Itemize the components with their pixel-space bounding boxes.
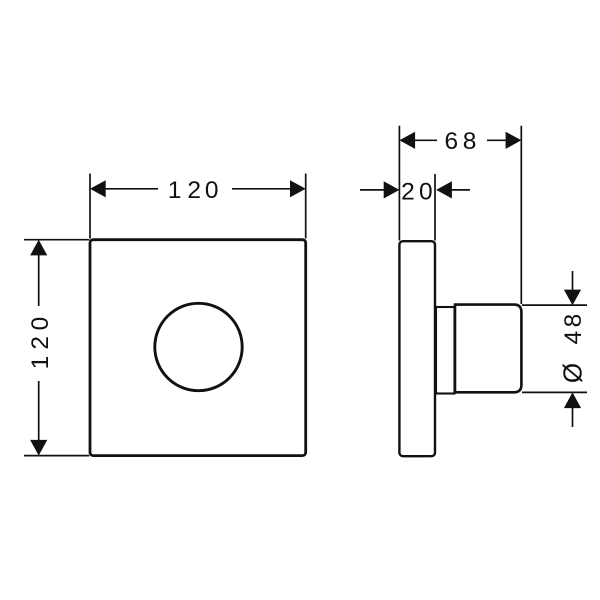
dimension line 68 right segment (487, 139, 507, 141)
arrow right of 68 dimension (506, 132, 522, 149)
svg-text:0: 0 (419, 179, 433, 206)
arrow left of 68 dimension (399, 132, 415, 149)
svg-text:8: 8 (463, 128, 477, 155)
svg-text:0: 0 (27, 317, 54, 331)
dimension line 120 vertical lower segment (38, 381, 40, 440)
svg-text:2: 2 (187, 177, 201, 204)
svg-text:1: 1 (27, 356, 54, 370)
dimension 48 bottom tail line (572, 407, 574, 427)
extension tick top of left 120 dimension (24, 239, 89, 241)
extension line right of 68 dimension (520, 126, 522, 304)
knob neck side view (436, 307, 455, 394)
knob body side view (455, 305, 521, 393)
svg-text:6: 6 (444, 128, 458, 155)
svg-text:8: 8 (560, 314, 587, 328)
arrow bottom of diameter 48 pointing up (564, 392, 581, 408)
extension line left of 68 dimension (398, 126, 400, 241)
extension line right of 20 dimension (434, 174, 436, 241)
dimension 48 top tail line (572, 271, 574, 291)
dimension 20 left tail line (360, 189, 385, 191)
extension tick bottom of left 120 dimension (24, 455, 89, 457)
label 120 vertical (27, 317, 54, 370)
arrow bottom of 120 vertical (30, 440, 47, 456)
label 20 (401, 179, 433, 206)
label 120 horizontal (168, 177, 219, 204)
dimension 20 right tail line (451, 189, 470, 191)
arrow right of 120 horizontal (290, 180, 306, 197)
arrow top of 120 vertical (30, 240, 47, 256)
knob circle front view (155, 303, 242, 390)
label 68 (444, 128, 476, 155)
extension line right of top 120 dimension (305, 174, 307, 239)
svg-text:1: 1 (168, 177, 182, 204)
label diameter 48 (558, 314, 588, 383)
svg-text:2: 2 (401, 179, 415, 206)
extension line bottom of diameter 48 dimension (522, 391, 587, 393)
svg-text:0: 0 (205, 177, 219, 204)
arrow right of 20 dimension pointing left (436, 181, 452, 198)
extension line left of top 120 dimension (89, 174, 91, 239)
arrow top of diameter 48 pointing down (564, 290, 581, 306)
svg-text:2: 2 (27, 336, 54, 350)
svg-text:Ø: Ø (558, 363, 588, 383)
dimension line 120 vertical upper segment (38, 254, 40, 306)
extension line top of diameter 48 dimension (522, 304, 587, 306)
side plate outline (399, 241, 435, 456)
dimension line 120 horizontal left segment (104, 188, 158, 190)
arrow left of 20 dimension pointing right (384, 181, 400, 198)
dimension line 68 left segment (413, 139, 437, 141)
arrow left of 120 horizontal (90, 180, 106, 197)
svg-text:4: 4 (560, 331, 587, 345)
dimension line 120 horizontal right segment (232, 188, 291, 190)
front plate outline (90, 240, 306, 456)
